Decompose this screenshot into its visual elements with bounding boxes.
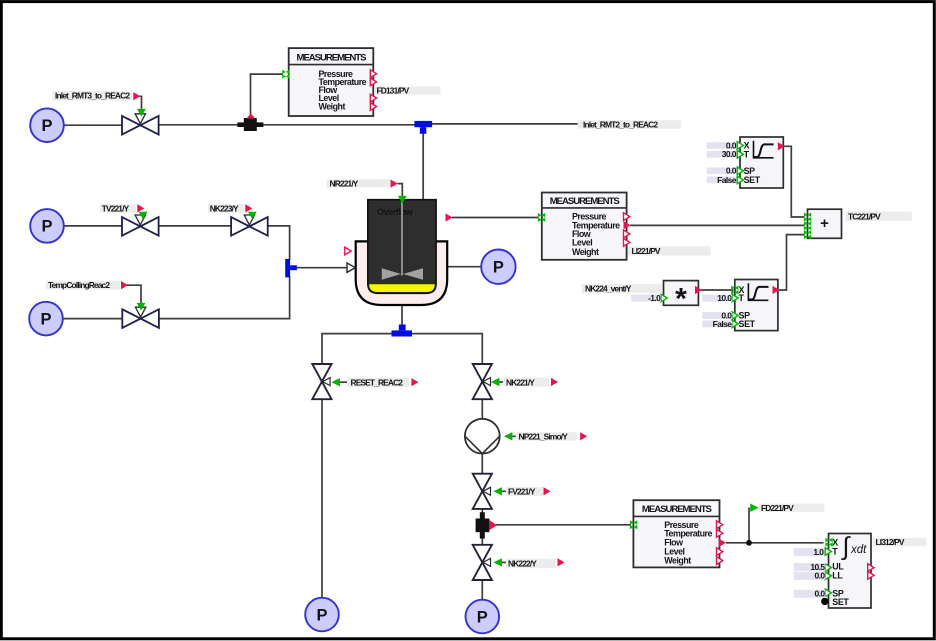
- M1 pin Pressure out: [370, 70, 376, 78]
- wire fitting F2 to valve NK222: [481, 538, 483, 546]
- R2 pin T: [732, 294, 738, 302]
- pressure source P2: [30, 209, 64, 243]
- wire P2 to valve TV221: [63, 225, 123, 227]
- svg-text:P: P: [41, 218, 52, 236]
- pressure source P4: [305, 598, 339, 632]
- value label FD131/PV: [374, 86, 440, 96]
- reactor stirrer: [382, 201, 423, 280]
- wire valve RESET_REAC2 to P4: [321, 399, 323, 598]
- wire branch to label FD221/PV: [748, 508, 750, 543]
- wire P1 to valve Inlet_RMT3: [63, 124, 123, 126]
- value label TC221/PV: [845, 211, 911, 221]
- label NK222/Y: [494, 558, 557, 568]
- valve FV221: [473, 474, 492, 509]
- M2 input connector: [538, 213, 545, 222]
- label NR221/Y: [327, 178, 391, 188]
- MEASUREMENTS box M1 (FD131): [289, 48, 374, 116]
- M3 pin Flow out: [719, 539, 726, 547]
- label connector NR221: [391, 180, 398, 188]
- wire fitting F1 riser to MEASUREMENTS M1: [251, 74, 284, 114]
- label connector Inlet_RMT3: [133, 92, 140, 100]
- svg-text:10.0: 10.0: [717, 293, 732, 303]
- svg-text:LL: LL: [832, 571, 843, 581]
- reactor vessel NR221 inner tank: [368, 200, 436, 294]
- svg-text:NK224_vent/Y: NK224_vent/Y: [585, 284, 632, 294]
- wire valve TV221 to valve NK223: [158, 225, 232, 227]
- reactor top control connector (green arrow): [398, 196, 407, 204]
- svg-text:Weight: Weight: [572, 247, 599, 257]
- wire valve NK222 to P5: [481, 580, 483, 600]
- svg-text:SET: SET: [739, 319, 756, 329]
- MEASUREMENTS box M2 (LI221): [542, 193, 627, 260]
- wire reactor to P6: [448, 266, 482, 268]
- multiplier pin 2: [661, 294, 667, 302]
- label Inlet_RMT3_to_REAC2: [53, 91, 132, 101]
- MEASUREMENTS box M3 (FD221): [633, 500, 719, 567]
- svg-text:FD131/PV: FD131/PV: [377, 86, 410, 96]
- label connector NK223: [245, 204, 252, 212]
- R1 pin SP: [737, 167, 743, 175]
- label TV221/Y: [100, 203, 137, 213]
- svg-text:0.0: 0.0: [814, 571, 825, 581]
- M3 pin Weight out: [717, 557, 723, 565]
- wire ramp R2 to adder TC221: [779, 235, 805, 290]
- value label LI312/PV: [873, 537, 927, 547]
- junction dot FD221 branch: [746, 540, 752, 546]
- valve TV221 control arrow: [139, 212, 148, 220]
- svg-text:0.0: 0.0: [814, 589, 825, 599]
- svg-text:Inlet_RMT3_to_REAC2: Inlet_RMT3_to_REAC2: [55, 91, 130, 101]
- reactor inlet arrow: [347, 263, 355, 272]
- wire manifold J3 to valves RESET_REAC2 and NK221: [322, 334, 482, 365]
- integrator pin SP: [825, 589, 831, 597]
- label NK221/Y: [491, 377, 549, 387]
- svg-text:P: P: [40, 310, 51, 328]
- M2 pin Flow out: [624, 230, 630, 238]
- svg-text:P: P: [477, 608, 488, 626]
- svg-text:FV221/Y: FV221/Y: [508, 487, 536, 497]
- svg-text:Overflow: Overflow: [377, 207, 414, 217]
- R1 value T = 30.0: [707, 149, 737, 159]
- svg-text:MEASUREMENTS: MEASUREMENTS: [642, 504, 713, 515]
- svg-text:LI221/PV: LI221/PV: [632, 246, 661, 256]
- multiplier block NK224: [664, 281, 699, 316]
- wire M2 Temperature to adder TC221: [630, 224, 805, 226]
- valve NK221: [473, 364, 492, 399]
- adder block TC221: [808, 209, 842, 238]
- reactor liquid level (yellow): [369, 284, 435, 292]
- pressure source P5: [466, 600, 500, 634]
- M1 pin Temperature out: [370, 78, 376, 86]
- integrator pin SET (dot): [821, 598, 828, 605]
- M3 input connector: [630, 520, 637, 529]
- valve Inlet_RMT3_to_REAC2: [122, 114, 159, 135]
- adder pin 2: [804, 221, 811, 230]
- integrator pin LL: [825, 572, 831, 580]
- label NK224_vent/Y: [582, 284, 662, 294]
- wire valve NK221 to pump NP221: [481, 399, 483, 420]
- svg-text:Weight: Weight: [664, 556, 691, 566]
- label connector TV221: [137, 204, 144, 212]
- wire M3 Flow to integrator LI312: [726, 542, 824, 544]
- svg-text:TempCollingReac2: TempCollingReac2: [48, 280, 110, 290]
- svg-text:NK222/Y: NK222/Y: [508, 559, 537, 569]
- M1 pin Weight out: [370, 103, 376, 111]
- valve RESET_REAC2: [312, 364, 331, 399]
- R1 output connector: [778, 142, 785, 150]
- adder pin 3: [804, 230, 811, 239]
- R1 value SP = 0.0: [707, 166, 737, 176]
- integrator value SP = 0.0: [794, 589, 826, 599]
- wire label NR221/Y drop to reactor: [398, 184, 403, 198]
- R1 value SET = False: [707, 175, 737, 185]
- svg-text:RESET_REAC2: RESET_REAC2: [351, 378, 404, 388]
- svg-text:P: P: [41, 117, 52, 135]
- pressure source P6: [481, 250, 515, 284]
- svg-text:30.0: 30.0: [722, 149, 737, 159]
- svg-text:xdt: xdt: [850, 544, 867, 556]
- wire fitting F2 to MEASUREMENTS M3: [496, 524, 631, 526]
- wire junction J1 drop to reactor top: [422, 127, 424, 200]
- svg-text:P: P: [316, 606, 327, 624]
- svg-text:Weight: Weight: [319, 102, 346, 112]
- svg-text:NK221/Y: NK221/Y: [506, 377, 535, 387]
- pressure source P1: [30, 108, 64, 142]
- R1 value X = 0.0: [707, 140, 737, 150]
- integrator block LI312: [829, 533, 872, 609]
- R1 pin X: [737, 142, 743, 150]
- wire valve TempCollingReac2 to junction J2: [158, 276, 290, 319]
- svg-text:TC221/PV: TC221/PV: [848, 211, 881, 221]
- svg-text:NP221_Simo/Y: NP221_Simo/Y: [519, 432, 569, 442]
- valve TV221: [122, 215, 159, 236]
- ramp block R1: [740, 137, 783, 188]
- integrator value T = 1.0: [794, 547, 825, 557]
- M3 pin Temperature out: [717, 529, 723, 537]
- wire pump NP221 to valve FV221: [481, 453, 483, 475]
- R2 value T = 10.0: [702, 293, 732, 303]
- svg-text:False: False: [717, 175, 737, 185]
- valve TempColling control arrow: [137, 303, 146, 311]
- valve NK223 control arrow: [248, 212, 257, 220]
- wire label Inlet_RMT3 drop to valve: [140, 96, 142, 109]
- label FV221/Y: [494, 487, 544, 497]
- wire junction J2 to reactor inlet: [296, 267, 348, 269]
- fitting F2: [476, 512, 497, 538]
- reactor alarm marker (red outline triangle): [345, 247, 351, 255]
- label NK223/Y: [208, 203, 245, 213]
- M3 pin Level out: [717, 548, 723, 556]
- valve NK222: [473, 545, 492, 580]
- label connector FV221: [544, 487, 551, 495]
- M1 pin Level out: [370, 94, 376, 102]
- svg-text:NK223/Y: NK223/Y: [210, 203, 239, 213]
- wire ramp R1 to adder TC221: [784, 146, 805, 217]
- R1 pin SET: [737, 176, 743, 184]
- junction J3 blue tee: [392, 325, 413, 337]
- wire reactor bottom to junction J3: [401, 302, 403, 326]
- integrator value LL = 0.0: [794, 571, 826, 581]
- svg-text:+: +: [820, 215, 829, 232]
- label TempCollingReac2: [46, 280, 121, 290]
- R2 pin X: [731, 286, 738, 295]
- ramp block R2: [735, 280, 778, 331]
- svg-text:LI312/PV: LI312/PV: [876, 537, 905, 547]
- label connector TempColling: [121, 281, 128, 289]
- label connector NK222: [558, 558, 565, 566]
- R2 pin SP: [732, 312, 738, 320]
- label connector NP221: [580, 432, 587, 440]
- R2 value SP = 0.0: [702, 310, 732, 320]
- multiplier value -1.0: [631, 293, 661, 303]
- label Inlet_RMT2_to_REAC2: [578, 120, 682, 130]
- svg-text:P: P: [493, 259, 504, 277]
- wire P3 to valve TempCollingReac2: [62, 318, 123, 320]
- integrator output pin 2: [868, 571, 874, 579]
- integrator pin T: [825, 548, 831, 556]
- svg-text:1.0: 1.0: [813, 547, 824, 557]
- integrator pin X: [825, 538, 832, 547]
- reactor measurement output connector: [446, 213, 453, 221]
- junction J1 blue tee: [414, 121, 432, 134]
- svg-text:MEASUREMENTS: MEASUREMENTS: [550, 196, 621, 207]
- R2 output connector: [773, 286, 780, 294]
- value label LI221/PV: [628, 246, 711, 256]
- R1 pin T: [737, 151, 743, 159]
- wire reactor outlet to MEASUREMENTS M2: [452, 217, 539, 219]
- wire junction J1 to label Inlet_RMT2_to_REAC2: [431, 123, 578, 125]
- svg-text:MEASUREMENTS: MEASUREMENTS: [297, 52, 368, 63]
- pump NP221: [465, 419, 500, 454]
- adder pin 1: [804, 213, 811, 222]
- svg-text:*: *: [675, 283, 687, 316]
- label RESET_REAC2: [332, 378, 410, 388]
- svg-text:TV221/Y: TV221/Y: [102, 203, 130, 213]
- wire valve FV221 to fitting F2: [481, 509, 483, 515]
- svg-text:SET: SET: [832, 597, 849, 607]
- svg-text:False: False: [713, 319, 733, 329]
- label connector NK221: [551, 378, 558, 386]
- R2 pin SET: [732, 320, 738, 328]
- M1 input connector: [282, 70, 289, 79]
- integrator output pin 1: [868, 564, 874, 572]
- valve TempCollingReac2: [122, 307, 159, 328]
- fitting F1: [237, 113, 263, 131]
- M2 pin Level out: [624, 238, 630, 246]
- svg-text:Inlet_RMT2_to_REAC2: Inlet_RMT2_to_REAC2: [583, 120, 658, 130]
- multiplier output connector: [695, 286, 702, 294]
- M2 pin Temperature out: [624, 221, 631, 229]
- wire valve NK223 to junction J2: [267, 226, 290, 260]
- svg-text:NR221/Y: NR221/Y: [330, 178, 359, 188]
- label connector RESET_REAC2: [411, 378, 418, 386]
- M3 pin Pressure out: [717, 521, 723, 529]
- label NP221_Simo/Y: [504, 432, 577, 442]
- wire valve Inlet_RMT3 to junction J1: [158, 124, 415, 126]
- junction J2 blue tee: [285, 259, 297, 278]
- svg-text:∫: ∫: [841, 533, 851, 561]
- label FD221/PV: [750, 503, 824, 513]
- R2 value SET = False: [702, 319, 732, 329]
- integrator pin UL: [825, 564, 831, 572]
- svg-text:FD221/PV: FD221/PV: [761, 503, 794, 513]
- valve Inlet_RMT3 control arrow: [137, 109, 146, 117]
- svg-text:-1.0: -1.0: [648, 293, 661, 303]
- svg-text:SET: SET: [744, 175, 761, 185]
- integrator value UL = 10.5: [794, 562, 826, 572]
- M2 pin Pressure out: [624, 213, 630, 221]
- wire multiplier to ramp R2: [701, 289, 734, 291]
- pressure source P3: [29, 302, 63, 336]
- reactor vessel NR221 outer shell: [356, 241, 448, 305]
- valve NK223: [231, 215, 268, 236]
- wire label TempCollingReac2 drop to valve: [127, 285, 141, 303]
